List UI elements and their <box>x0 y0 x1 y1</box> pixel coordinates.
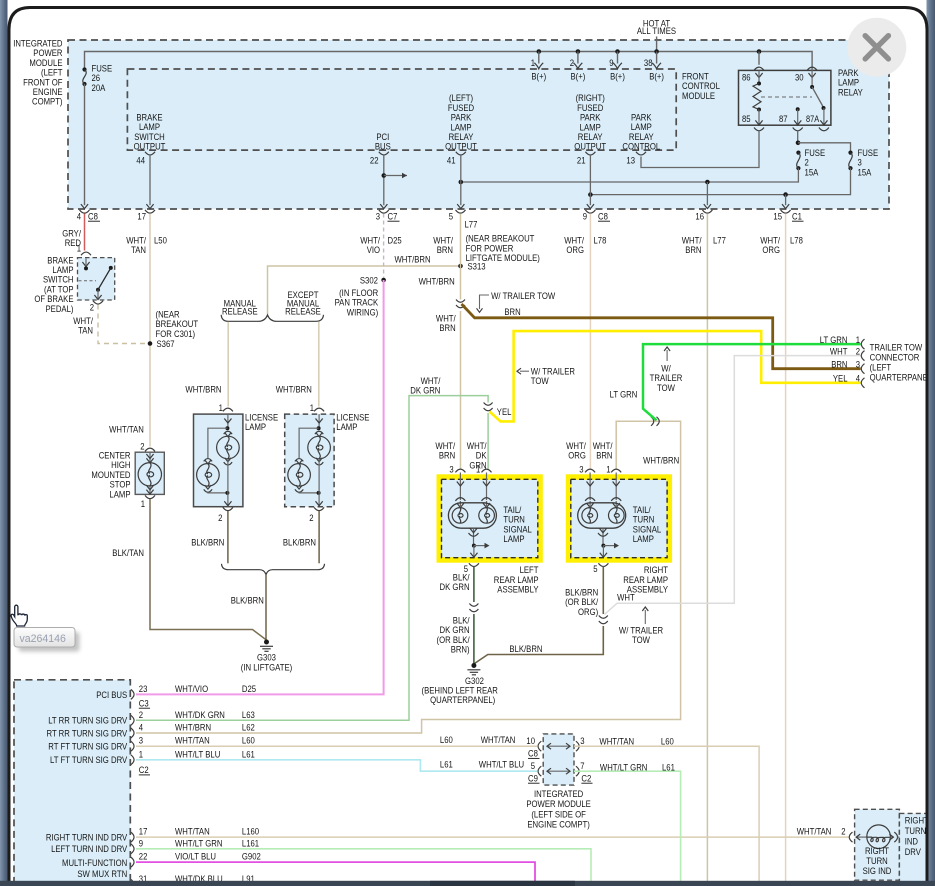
svg-text:9: 9 <box>609 58 613 69</box>
left tail/turn signal lamp (highlighted) <box>439 477 540 560</box>
wire: fuse 2 output to left park lamp feed <box>461 168 799 182</box>
svg-text:7: 7 <box>580 761 584 772</box>
svg-text:QUARTERPANEL): QUARTERPANEL) <box>430 695 495 706</box>
svg-text:L60: L60 <box>242 736 255 747</box>
svg-text:B(+): B(+) <box>649 72 664 83</box>
wire: pin 15 feed from fuse 3 line <box>785 195 787 206</box>
wire: WHT/LT GRN L61 output run <box>574 771 681 884</box>
wire: BLK/BRN merged to G303 <box>265 575 267 641</box>
pin 13 connector <box>636 152 646 155</box>
svg-text:ORG: ORG <box>566 245 584 256</box>
svg-text:WHT/BRN: WHT/BRN <box>643 455 679 466</box>
svg-text:1: 1 <box>856 335 860 346</box>
wire: WHT/LT GRN L161 run <box>136 849 591 884</box>
svg-text:S367: S367 <box>157 339 175 350</box>
svg-text:4: 4 <box>77 212 81 223</box>
pin 22 pci bus <box>379 152 389 155</box>
pin 9 B(+) <box>617 52 619 64</box>
svg-text:WHT/TAN: WHT/TAN <box>109 425 144 436</box>
svg-text:5: 5 <box>593 564 597 575</box>
svg-text:RT RR TURN SIG DRV: RT RR TURN SIG DRV <box>47 728 128 739</box>
svg-text:WHT/BRN: WHT/BRN <box>175 723 211 734</box>
wire: WHT/BRN to license lamp 1 <box>227 322 229 407</box>
svg-text:ORG: ORG <box>568 451 586 462</box>
break symbol on WHT/BRN <box>456 300 465 303</box>
svg-text:B(+): B(+) <box>571 72 586 83</box>
svg-text:WHT/TAN: WHT/TAN <box>481 735 516 746</box>
svg-text:TURN: TURN <box>905 826 927 837</box>
svg-text:GRN: GRN <box>469 460 486 471</box>
wire: fuse junction to fuse 3 <box>798 143 851 153</box>
svg-text:15: 15 <box>773 212 782 223</box>
svg-text:17: 17 <box>137 212 146 223</box>
brace: license lamp grounds merge <box>222 564 325 575</box>
ground G302 <box>471 663 476 668</box>
pci bus continuation arrow <box>382 173 387 178</box>
svg-text:WHT/BRN: WHT/BRN <box>419 277 455 288</box>
pin 41 left fused park lamp relay output <box>456 152 466 155</box>
wire: pin 16 feed from fuse 2 line <box>706 182 708 205</box>
wire: BLK/BRN right lamp ground upper <box>602 567 604 615</box>
svg-text:WHT: WHT <box>617 593 635 604</box>
wire: relay 87 to fuse 2 <box>797 131 799 143</box>
svg-text:87: 87 <box>779 114 788 125</box>
svg-text:13: 13 <box>626 156 635 167</box>
svg-text:44: 44 <box>136 156 145 167</box>
wire: dashed segment above splice S302 <box>383 214 385 278</box>
pin 44 brake lamp switch output <box>145 152 155 155</box>
svg-text:5: 5 <box>449 212 453 223</box>
power feed bus wire HOT AT ALL TIMES <box>85 52 813 70</box>
svg-text:LAMP: LAMP <box>336 422 357 433</box>
fuse 26 20A <box>82 67 86 71</box>
svg-text:IND: IND <box>905 837 918 848</box>
svg-text:OUTPUT: OUTPUT <box>574 142 606 153</box>
svg-text:2: 2 <box>90 303 94 314</box>
svg-text:15A: 15A <box>858 167 872 178</box>
splice S367 <box>148 341 153 346</box>
break symbol right ground <box>599 616 608 619</box>
svg-text:1: 1 <box>77 244 81 255</box>
svg-text:TAN: TAN <box>131 245 146 256</box>
svg-text:2: 2 <box>309 513 313 524</box>
svg-text:ORG: ORG <box>762 245 780 256</box>
svg-text:ALL TIMES: ALL TIMES <box>637 26 676 37</box>
svg-text:OUTPUT: OUTPUT <box>134 142 166 153</box>
svg-text:W/ TRAILER TOW: W/ TRAILER TOW <box>491 291 555 302</box>
svg-text:PEDAL): PEDAL) <box>46 304 74 315</box>
wire: WHT to trailer tow connector pin 2 <box>605 356 861 615</box>
svg-text:RELAY: RELAY <box>838 87 863 98</box>
svg-text:WHT/BRN: WHT/BRN <box>395 255 431 266</box>
svg-text:WHT/TAN: WHT/TAN <box>175 827 210 838</box>
svg-text:1: 1 <box>141 499 145 510</box>
label with arrow: W/ TRAILER TOW (yel) <box>520 370 529 372</box>
svg-text:S302: S302 <box>360 276 378 287</box>
ground G303 <box>264 640 269 645</box>
break symbol left ground <box>469 604 478 607</box>
svg-text:LT GRN: LT GRN <box>610 389 638 400</box>
svg-text:RT FT TURN SIG DRV: RT FT TURN SIG DRV <box>48 742 127 753</box>
svg-text:(IN LIFTGATE): (IN LIFTGATE) <box>241 662 293 673</box>
wire: relay 85 to pin 13 park lamp relay control <box>641 131 759 168</box>
svg-text:BRN: BRN <box>437 245 453 256</box>
wire: WHT/TAN L160 to right turn signal indicator <box>136 836 850 838</box>
pci pin 23 WHT/VIO D25 <box>131 689 134 699</box>
wire: WHT/VIO D25 to PCI bus pin 23 <box>136 280 384 694</box>
svg-text:BRN: BRN <box>439 451 455 462</box>
pin 38 B(+) <box>656 52 658 64</box>
label with arrow: W/ TRAILER TOW (brn) <box>480 295 490 309</box>
svg-text:WHT/DK GRN: WHT/DK GRN <box>175 710 225 721</box>
svg-text:TOW: TOW <box>531 376 549 387</box>
svg-text:L77: L77 <box>713 236 726 247</box>
wire: WHT/TAN L60 to integrated power module <box>136 745 537 747</box>
label with arrow: W/ TRAILER TOW (lt grn) <box>666 350 668 361</box>
svg-text:38: 38 <box>644 58 653 69</box>
svg-text:WHT/BRN: WHT/BRN <box>276 385 312 396</box>
svg-text:LT FT TURN SIG DRV: LT FT TURN SIG DRV <box>50 755 128 766</box>
wire: WHT/ORG L78 to right tail lamp pin 3 <box>589 214 591 470</box>
wire: WHT/BRN to license lamp 2 <box>318 322 320 407</box>
outer module box: Integrated Power Module <box>68 40 889 209</box>
svg-text:1: 1 <box>219 403 223 414</box>
svg-text:ENGINE COMPT): ENGINE COMPT) <box>527 820 589 831</box>
svg-text:RIGHT TURN IND DRV: RIGHT TURN IND DRV <box>46 833 128 844</box>
svg-text:WIRING): WIRING) <box>347 307 378 318</box>
wire: BLK/TAN stop lamp ground <box>150 499 266 640</box>
wire: BLK/BRN from license lamp 1 <box>227 511 229 563</box>
svg-text:CONTROL: CONTROL <box>622 142 660 153</box>
right tail/turn signal lamp (highlighted) <box>569 477 670 560</box>
pci pin 31 WHT/DK BLU L91 <box>131 879 134 886</box>
svg-text:VIO/LT BLU: VIO/LT BLU <box>175 852 216 863</box>
svg-text:BRN: BRN <box>596 451 612 462</box>
svg-text:3: 3 <box>856 360 860 371</box>
wire: WHT/BRN L77 pin 16 run <box>706 214 708 882</box>
svg-text:3: 3 <box>580 736 584 747</box>
svg-text:5: 5 <box>531 761 535 772</box>
pci pin 3 WHT/TAN L60 <box>131 741 134 751</box>
svg-text:2: 2 <box>570 58 574 69</box>
svg-text:22: 22 <box>139 852 148 863</box>
svg-text:RIGHT: RIGHT <box>905 815 929 826</box>
svg-text:ORG): ORG) <box>578 607 598 618</box>
svg-text:BRN: BRN <box>504 307 520 318</box>
svg-text:L61: L61 <box>440 760 453 771</box>
connector pin 4 C8 <box>80 210 90 213</box>
connector pin 17 <box>145 210 155 213</box>
svg-text:WHT/TAN: WHT/TAN <box>175 736 210 747</box>
svg-text:10: 10 <box>526 736 535 747</box>
svg-text:2: 2 <box>218 513 222 524</box>
svg-text:4: 4 <box>139 723 143 734</box>
svg-text:LT GRN: LT GRN <box>820 335 848 346</box>
svg-text:LAMP: LAMP <box>633 534 654 545</box>
brace: license lamp variants split <box>221 315 323 322</box>
svg-text:VIO: VIO <box>367 245 380 256</box>
svg-text:22: 22 <box>370 156 379 167</box>
svg-text:BLK/BRN: BLK/BRN <box>231 596 264 607</box>
svg-text:D25: D25 <box>388 236 402 247</box>
svg-text:9: 9 <box>139 838 143 849</box>
svg-text:LAMP: LAMP <box>245 422 266 433</box>
wire: WHT/BRN L62 PCI pin 4 to right tail lamp pin 1 <box>136 421 681 733</box>
svg-text:G902: G902 <box>242 852 261 863</box>
wire: fuse 26 to pin 4 <box>84 84 86 205</box>
svg-text:1: 1 <box>310 403 314 414</box>
label with arrow: W/ TRAILER TOW (wht) <box>644 610 646 624</box>
wire: WHT/TAN L50 to stop lamp <box>149 214 151 447</box>
svg-text:SIG IND: SIG IND <box>863 866 892 877</box>
svg-text:L60: L60 <box>440 735 453 746</box>
relay coil <box>757 82 761 86</box>
svg-text:L161: L161 <box>242 838 259 849</box>
svg-text:YEL: YEL <box>497 407 512 418</box>
svg-text:L78: L78 <box>790 236 803 247</box>
wire: GRY/RED to brake lamp switch <box>84 214 86 251</box>
wire: WHT/DK BLU L91 run <box>136 883 757 885</box>
wire: fuse 3 output to right park lamp feed <box>590 168 850 194</box>
svg-text:MULTI-FUNCTION: MULTI-FUNCTION <box>62 858 127 869</box>
wire: VIO/LT BLU G902 run <box>136 862 535 884</box>
svg-text:TOW: TOW <box>657 383 675 394</box>
svg-text:PCI BUS: PCI BUS <box>96 690 127 701</box>
connector pin 15 C1 <box>781 210 791 213</box>
svg-text:LT RR TURN SIG DRV: LT RR TURN SIG DRV <box>48 716 128 727</box>
close button <box>847 18 906 77</box>
svg-text:L61: L61 <box>242 749 255 760</box>
pin 2 B(+) <box>577 52 579 64</box>
svg-text:21: 21 <box>577 156 586 167</box>
svg-text:BLK/BRN: BLK/BRN <box>191 538 224 549</box>
svg-text:RELEASE: RELEASE <box>222 307 258 318</box>
fuse 3 15A <box>848 151 852 155</box>
svg-text:MODULE: MODULE <box>682 91 715 102</box>
pci pin 1 WHT/LT BLU L61 <box>131 755 134 765</box>
relay pin 86 <box>758 52 760 65</box>
svg-text:BLK/TAN: BLK/TAN <box>112 548 144 559</box>
svg-text:1: 1 <box>606 464 610 475</box>
wire: WHT/TAN L60 output run <box>574 746 759 884</box>
wire: WHT/DK GRN L63 PCI pin 2 to left tail lamp pin 1 <box>136 396 488 721</box>
svg-text:15A: 15A <box>805 167 819 178</box>
svg-text:RELEASE: RELEASE <box>285 307 321 318</box>
svg-text:S313: S313 <box>468 262 486 273</box>
svg-text:B(+): B(+) <box>531 72 546 83</box>
svg-text:2: 2 <box>841 826 845 837</box>
svg-text:4: 4 <box>856 374 860 385</box>
pci pin 9 WHT/LT GRN L161 <box>131 844 134 854</box>
wire: WHT/BRN license lamp feed header <box>268 266 461 315</box>
svg-text:86: 86 <box>742 73 751 84</box>
svg-text:DRV: DRV <box>905 847 922 858</box>
pci pin 4 WHT/BRN L62 <box>131 728 134 738</box>
svg-text:QUARTERPANEL): QUARTERPANEL) <box>870 373 935 384</box>
svg-text:B(+): B(+) <box>610 72 625 83</box>
svg-text:BUS: BUS <box>375 142 391 153</box>
wire: WHT/ORG L78 pin 15 run <box>785 214 787 882</box>
svg-text:TAN: TAN <box>78 326 93 337</box>
trailer tow connector (left quarterpanel) <box>861 339 864 349</box>
svg-text:L160: L160 <box>242 827 259 838</box>
wire: BRN to trailer tow connector pin 3 <box>462 304 861 369</box>
svg-text:OUTPUT: OUTPUT <box>445 142 477 153</box>
connector pin 3 C7 <box>379 210 389 213</box>
svg-text:3: 3 <box>579 464 583 475</box>
wire: WHT/LT BLU L61 to integrated power module <box>136 760 537 771</box>
wire: BLK/BRN from license lamp 2 <box>318 511 320 563</box>
svg-text:L50: L50 <box>154 236 167 247</box>
inner module box: Front Control Module <box>127 69 676 150</box>
svg-text:SW MUX RTN: SW MUX RTN <box>77 869 127 880</box>
relay K1 PARK LAMP RELAY box <box>739 70 831 125</box>
window right bar <box>927 0 935 886</box>
svg-text:YEL: YEL <box>833 374 848 385</box>
svg-text:BLK/BRN: BLK/BRN <box>283 538 316 549</box>
svg-text:BRN): BRN) <box>451 645 470 656</box>
svg-text:17: 17 <box>139 827 148 838</box>
wire: WHT/BRN pin 5 to S313 and break <box>460 214 462 300</box>
svg-text:L61: L61 <box>662 762 675 773</box>
svg-text:2: 2 <box>139 710 143 721</box>
svg-text:41: 41 <box>447 156 456 167</box>
svg-text:BRN: BRN <box>831 360 847 371</box>
svg-text:WHT/LT GRN: WHT/LT GRN <box>175 838 223 849</box>
svg-text:WHT/VIO: WHT/VIO <box>175 684 208 695</box>
pin 21 right fused park lamp relay output <box>585 152 595 155</box>
svg-text:LAMP: LAMP <box>109 489 130 500</box>
module box: RIGHT TURN IND DRV <box>899 813 927 886</box>
svg-text:LAMP: LAMP <box>503 534 524 545</box>
wire: BLK/DK GRN left lamp ground upper <box>473 567 475 603</box>
svg-text:COMPT): COMPT) <box>32 97 63 108</box>
svg-text:WHT/TAN: WHT/TAN <box>797 826 832 837</box>
svg-text:16: 16 <box>695 212 704 223</box>
pin 1 B(+) <box>538 52 540 64</box>
inline connector: integrated power module (left side of engine compt) <box>543 734 574 785</box>
wire: WHT/TAN dashed from brake switch to S367 <box>98 305 147 344</box>
svg-text:L62: L62 <box>242 723 255 734</box>
svg-text:LEFT TURN IND DRV: LEFT TURN IND DRV <box>51 844 128 855</box>
svg-text:30: 30 <box>795 73 804 84</box>
tooltip va264146 <box>19 632 80 652</box>
break symbol on right lamp feed <box>651 417 654 426</box>
wire: WHT/BRN continues to left tail lamp pin 3 <box>460 311 462 469</box>
indicator lamp box: RIGHT TURN SIG IND <box>855 809 900 880</box>
svg-text:9: 9 <box>583 212 587 223</box>
window left bar <box>0 0 8 886</box>
svg-text:WHT: WHT <box>830 347 848 358</box>
svg-text:BLK/BRN: BLK/BRN <box>509 644 542 655</box>
svg-text:L78: L78 <box>594 236 607 247</box>
svg-text:BRN: BRN <box>685 245 701 256</box>
pci pin 22 VIO/LT BLU G902 <box>131 857 134 867</box>
pci pin 17 WHT/TAN L160 <box>131 832 134 842</box>
svg-text:3: 3 <box>449 464 453 475</box>
wire: YEL to trailer tow connector pin 4 <box>490 331 861 421</box>
break symbol on WHT/DK GRN <box>484 403 493 406</box>
svg-text:L63: L63 <box>242 710 255 721</box>
svg-text:3: 3 <box>139 736 143 747</box>
relay pin 30 and armature <box>811 66 813 71</box>
svg-text:2: 2 <box>140 442 144 453</box>
svg-text:WHT/BRN: WHT/BRN <box>185 385 221 396</box>
mouse cursor <box>11 605 27 626</box>
relay coil-armature dashed link <box>761 96 812 98</box>
module box: body controller connector (PCI) <box>14 680 130 886</box>
svg-text:1: 1 <box>531 58 535 69</box>
pci pin 2 WHT/DK GRN L63 <box>131 715 134 725</box>
svg-text:L60: L60 <box>661 737 674 748</box>
splice S313 <box>458 264 463 269</box>
wire: BLK/BRN right ground to G302 <box>475 626 604 664</box>
fuse 2 15A <box>796 151 800 155</box>
svg-text:va264146: va264146 <box>20 633 66 645</box>
svg-text:WHT/TAN: WHT/TAN <box>599 737 634 748</box>
junction dots on bus <box>537 49 542 54</box>
connector pin 16 <box>702 210 712 213</box>
svg-text:85: 85 <box>742 114 751 125</box>
connector pin 9 C8 <box>585 210 595 213</box>
connector pin 5 <box>456 210 466 213</box>
svg-text:2: 2 <box>856 347 860 358</box>
svg-text:BRN: BRN <box>439 323 455 334</box>
svg-text:3: 3 <box>376 212 380 223</box>
svg-text:WHT/LT GRN: WHT/LT GRN <box>600 762 648 773</box>
window bottom bar <box>0 881 935 886</box>
svg-text:87A: 87A <box>806 114 819 124</box>
svg-text:20A: 20A <box>92 83 106 94</box>
wire: LT GRN to trailer tow connector pin 1 <box>643 344 861 420</box>
splice S302 <box>381 278 386 283</box>
svg-text:D25: D25 <box>242 684 256 695</box>
svg-text:DK GRN: DK GRN <box>410 386 440 397</box>
svg-text:L77: L77 <box>465 220 478 231</box>
svg-text:1: 1 <box>139 749 143 760</box>
wire: WHT/DK GRN below break to lamp <box>487 413 489 469</box>
svg-text:WHT/LT BLU: WHT/LT BLU <box>175 749 220 760</box>
svg-text:DK GRN: DK GRN <box>440 582 470 593</box>
svg-text:TOW: TOW <box>632 635 650 646</box>
svg-text:WHT/LT BLU: WHT/LT BLU <box>479 760 524 771</box>
wire: BLK/DK GRN (OR BLK/BRN) to G302 <box>473 614 475 664</box>
svg-text:ASSEMBLY: ASSEMBLY <box>497 585 539 596</box>
svg-text:23: 23 <box>139 684 148 695</box>
